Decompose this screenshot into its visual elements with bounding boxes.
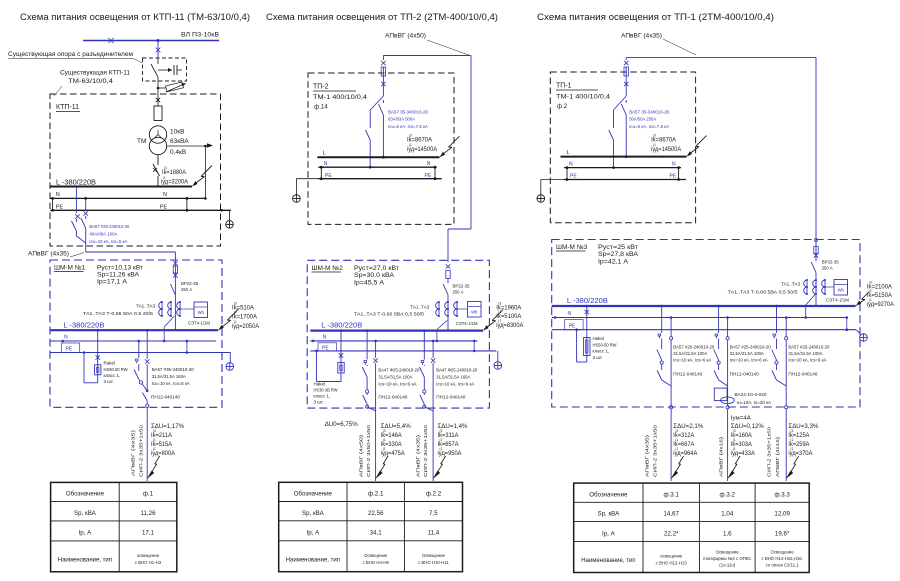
svg-text:Icu=6 кА, Ics=7,5 кА: Icu=6 кА, Ics=7,5 кА — [388, 124, 428, 129]
svg-text:класс 1,: класс 1, — [104, 373, 121, 378]
svg-text:ф.2: ф.2 — [557, 103, 568, 110]
svg-text:СЭТ4-1/1М: СЭТ4-1/1М — [188, 321, 210, 326]
svg-text:АПвВГ (4х35): АПвВГ (4х35) — [416, 434, 421, 477]
svg-text:ВА57 #25-240010-20: ВА57 #25-240010-20 — [730, 344, 771, 349]
svg-text:(3: (3 — [383, 429, 386, 433]
svg-text:АПвВГ (4х35): АПвВГ (4х35) — [28, 252, 69, 258]
svg-text:1,04: 1,04 — [721, 511, 734, 518]
svg-text:L -380/220В: L -380/220В — [63, 322, 104, 329]
svg-text:ΣΔU=1,17%: ΣΔU=1,17% — [151, 424, 185, 430]
svg-text:(3: (3 — [869, 281, 872, 285]
svg-text:31,5А/31,5А 100А: 31,5А/31,5А 100А — [730, 351, 764, 356]
svg-text:(3: (3 — [733, 429, 736, 433]
svg-text:ТМ: ТМ — [137, 138, 146, 145]
svg-text:iуд=433А: iуд=433А — [731, 451, 755, 457]
svg-text:(1: (1 — [153, 447, 156, 451]
svg-text:АПвВГ (4х35): АПвВГ (4х35) — [131, 429, 136, 476]
svg-text:КТП-11: КТП-11 — [56, 104, 79, 111]
svg-text:Наименование, тип: Наименование, тип — [58, 557, 112, 563]
svg-text:N: N — [56, 192, 60, 198]
svg-text:Обозначение: Обозначение — [589, 491, 628, 498]
svg-text:HS50-50 RW: HS50-50 RW — [593, 342, 618, 347]
svg-text:iуд=3200А: iуд=3200А — [161, 180, 188, 186]
svg-text:ВР22-35: ВР22-35 — [181, 281, 198, 286]
svg-text:(1: (1 — [163, 176, 166, 180]
svg-text:PE: PE — [670, 174, 677, 180]
svg-text:с ВНО Н14-Н15,Н16,: с ВНО Н14-Н15,Н16, — [761, 556, 802, 561]
svg-text:(3: (3 — [675, 429, 678, 433]
svg-text:ВА57 #25-240010-20: ВА57 #25-240010-20 — [788, 344, 829, 349]
svg-text:(1: (1 — [733, 438, 736, 442]
svg-text:(3: (3 — [653, 134, 656, 138]
svg-text:50А/50А 250А: 50А/50А 250А — [629, 117, 656, 122]
svg-text:N: N — [323, 335, 327, 341]
svg-text:ТА1..ТА3: ТА1..ТА3 — [410, 304, 429, 309]
svg-text:с ВНО Н10-Н11: с ВНО Н10-Н11 — [418, 560, 449, 565]
svg-text:ВА57 #25-240010-20: ВА57 #25-240010-20 — [673, 344, 714, 349]
svg-text:ШМ-М №1: ШМ-М №1 — [54, 265, 86, 272]
svg-text:iуд=14500А: iуд=14500А — [651, 147, 681, 153]
svg-text:(1: (1 — [790, 438, 793, 442]
svg-text:3 шт.: 3 шт. — [314, 400, 324, 405]
svg-text:63А/63А 500А: 63А/63А 500А — [388, 117, 415, 122]
svg-text:N: N — [427, 161, 431, 167]
svg-text:(1: (1 — [869, 298, 872, 302]
svg-text:Sp, кВА: Sp, кВА — [74, 510, 97, 517]
svg-text:ТА1..ТА3 Т-0,66 5ВА 0,5 50/5: ТА1..ТА3 Т-0,66 5ВА 0,5 50/5 — [354, 312, 425, 317]
svg-text:iуд=950А: iуд=950А — [438, 451, 462, 457]
svg-text:Wh: Wh — [471, 310, 478, 315]
svg-text:ВА47 Ф25-240010-20: ВА47 Ф25-240010-20 — [436, 368, 477, 373]
svg-text:с ВНО Н1-Н3: с ВНО Н1-Н3 — [135, 560, 162, 565]
svg-text:ТМ-1 400/10/0,4: ТМ-1 400/10/0,4 — [313, 94, 368, 101]
svg-text:iуд=14500А: iуд=14500А — [407, 147, 437, 153]
svg-text:ф.1: ф.1 — [143, 491, 154, 498]
svg-text:Wh: Wh — [838, 288, 845, 293]
svg-text:СИП-2 3х35+1х50: СИП-2 3х35+1х50 — [767, 426, 772, 477]
svg-text:34,1: 34,1 — [370, 530, 383, 537]
svg-text:11,26: 11,26 — [140, 510, 156, 517]
svg-text:АПвВГ (4х35): АПвВГ (4х35) — [621, 34, 662, 40]
svg-text:250 А: 250 А — [822, 266, 833, 271]
svg-text:ТА1..ТА3 Т-0,66 5ВА 0,5 50/5: ТА1..ТА3 Т-0,66 5ВА 0,5 50/5 — [728, 290, 799, 295]
svg-text:(3: (3 — [234, 302, 237, 306]
svg-text:Схема питания освещения от ТП-: Схема питания освещения от ТП-2 (2ТМ-400… — [266, 12, 498, 22]
svg-text:ВА57 #25-240010-20: ВА57 #25-240010-20 — [89, 224, 129, 229]
svg-text:ПН12-040140: ПН12-040140 — [436, 395, 466, 400]
svg-text:(3: (3 — [409, 134, 412, 138]
svg-text:10кВ: 10кВ — [170, 129, 184, 136]
svg-text:(3: (3 — [164, 166, 167, 170]
svg-text:ВА22-10-4-020: ВА22-10-4-020 — [735, 392, 768, 397]
svg-text:31,5А/31,5А 100А: 31,5А/31,5А 100А — [673, 351, 707, 356]
svg-text:HS30-3В RW: HS30-3В RW — [314, 388, 339, 393]
svg-text:Освещение: Освещение — [716, 550, 740, 555]
svg-text:ТА1..ТА3: ТА1..ТА3 — [781, 282, 800, 287]
svg-text:PE: PE — [569, 324, 576, 330]
svg-text:iуд=2050А: iуд=2050А — [232, 324, 259, 330]
svg-text:(1: (1 — [675, 438, 678, 442]
svg-text:PE: PE — [56, 204, 64, 210]
svg-text:ф.3.2: ф.3.2 — [720, 491, 736, 498]
svg-text:ТП-2: ТП-2 — [313, 84, 329, 91]
svg-text:класс 1,: класс 1, — [314, 394, 331, 399]
svg-text:Hakel: Hakel — [314, 382, 326, 387]
svg-text:22,56: 22,56 — [368, 510, 384, 517]
svg-text:Rakel: Rakel — [104, 361, 116, 366]
svg-text:Icu=10 кА, Ics=5 кА: Icu=10 кА, Ics=5 кА — [152, 381, 190, 386]
svg-text:HS50.50 RW: HS50.50 RW — [104, 367, 129, 372]
svg-text:Icu=10 кА, Ics=6 кА: Icu=10 кА, Ics=6 кА — [378, 381, 416, 386]
svg-text:класс 1,: класс 1, — [593, 349, 610, 354]
svg-text:L: L — [323, 150, 326, 156]
svg-text:Iр=42,1 А: Iр=42,1 А — [598, 258, 629, 265]
svg-text:(3: (3 — [498, 302, 501, 306]
svg-text:Руст=27,0 кВт: Руст=27,0 кВт — [354, 265, 399, 272]
svg-text:Icu=10 кА, Ics=6 кА: Icu=10 кА, Ics=6 кА — [788, 358, 826, 363]
svg-text:17,1: 17,1 — [142, 530, 155, 537]
svg-text:Icu=10 кА, Ics=6 кА: Icu=10 кА, Ics=6 кА — [436, 381, 474, 386]
svg-text:PE: PE — [570, 174, 577, 180]
svg-text:Icu=10 кА, Ics=6 кА: Icu=10 кА, Ics=6 кА — [730, 358, 768, 363]
svg-text:АПвВГ (4х35): АПвВГ (4х35) — [645, 434, 650, 477]
svg-text:(1: (1 — [790, 447, 793, 451]
svg-text:АПвВГ (4х50): АПвВГ (4х50) — [385, 34, 426, 40]
svg-text:СЭТ4-1/1М: СЭТ4-1/1М — [826, 298, 849, 303]
svg-text:СИП-2 3х35+1х50: СИП-2 3х35+1х50 — [139, 424, 144, 477]
svg-text:250 А: 250 А — [453, 290, 464, 295]
svg-text:СИП-2 3х35+1х50: СИП-2 3х35+1х50 — [423, 424, 428, 477]
svg-text:N: N — [569, 161, 573, 167]
svg-text:Наименование, тип: Наименование, тип — [286, 557, 340, 563]
svg-text:22,2*: 22,2* — [664, 530, 679, 537]
svg-text:ΣΔU=0,12%: ΣΔU=0,12% — [731, 424, 765, 430]
svg-text:Iр, А: Iр, А — [79, 530, 93, 537]
svg-text:31,5А/31,5А 100А: 31,5А/31,5А 100А — [378, 375, 412, 380]
svg-text:ф.2.1: ф.2.1 — [368, 491, 384, 498]
svg-text:iуд=370А: iуд=370А — [788, 451, 812, 457]
svg-text:(1: (1 — [498, 319, 501, 323]
svg-text:ТА1..ТА3: ТА1..ТА3 — [136, 304, 155, 309]
svg-text:ф.14: ф.14 — [314, 104, 328, 111]
svg-text:31,5А/31,5А 160А: 31,5А/31,5А 160А — [436, 375, 470, 380]
svg-text:7,5: 7,5 — [429, 510, 438, 517]
svg-text:PE: PE — [325, 173, 332, 179]
svg-text:11,4: 11,4 — [428, 530, 440, 537]
svg-text:Освещение: Освещение — [364, 553, 388, 558]
svg-text:Схема питания освещения от ТП-: Схема питания освещения от ТП-1 (2ТМ-400… — [537, 12, 774, 22]
svg-text:ПН12-040140: ПН12-040140 — [378, 395, 408, 400]
svg-text:ΔU0=6,75%: ΔU0=6,75% — [325, 421, 358, 428]
svg-text:платформы №4 с ОПКС: платформы №4 с ОПКС — [703, 556, 751, 561]
svg-text:Sр=30.0 кВА: Sр=30.0 кВА — [354, 272, 395, 279]
svg-text:АПвВГ (4х16): АПвВГ (4х16) — [775, 436, 780, 477]
svg-text:ВА57 #35-340010-20: ВА57 #35-340010-20 — [152, 367, 194, 372]
svg-text:12,09: 12,09 — [774, 511, 790, 518]
svg-text:ф.3.3: ф.3.3 — [774, 491, 790, 498]
svg-text:iуд=800А: iуд=800А — [151, 451, 175, 457]
svg-text:ТМ-63/10/0,4: ТМ-63/10/0,4 — [68, 78, 114, 85]
svg-text:L -380/220В: L -380/220В — [567, 298, 608, 305]
svg-text:Существующая опора с разъедини: Существующая опора с разъединителем — [8, 51, 133, 58]
svg-text:ВА57 35-340010-20: ВА57 35-340010-20 — [388, 110, 428, 115]
svg-text:АПвВГ (4х50): АПвВГ (4х50) — [359, 434, 364, 477]
svg-text:ф.3.1: ф.3.1 — [663, 491, 679, 498]
svg-text:(1: (1 — [383, 447, 386, 451]
svg-text:N: N — [568, 311, 572, 317]
svg-text:со опоек С2/11,1: со опоек С2/11,1 — [766, 563, 800, 568]
svg-text:PE: PE — [322, 345, 329, 351]
svg-text:iуд=9270А: iуд=9270А — [867, 302, 894, 308]
svg-text:с ВНО Н4-Н9: с ВНО Н4-Н9 — [363, 560, 390, 565]
svg-text:ТМ-1 400/10/0,4: ТМ-1 400/10/0,4 — [556, 94, 611, 101]
svg-text:(1: (1 — [440, 438, 443, 442]
svg-text:Icu=10 кА, Ics=5 кА: Icu=10 кА, Ics=5 кА — [89, 239, 127, 244]
svg-text:СИП-2 3х35+1х50: СИП-2 3х35+1х50 — [653, 424, 658, 477]
svg-text:Sp, кВА: Sp, кВА — [597, 511, 620, 518]
svg-text:с ВНО Н12-Н13: с ВНО Н12-Н13 — [656, 561, 688, 566]
svg-text:(1: (1 — [733, 447, 736, 451]
svg-text:Обозначение: Обозначение — [294, 491, 333, 498]
svg-text:ПН12-040140: ПН12-040140 — [788, 372, 818, 377]
svg-text:(1о-11о): (1о-11о) — [719, 563, 735, 568]
svg-text:Освещение: Освещение — [771, 550, 795, 555]
svg-text:(1: (1 — [675, 447, 678, 451]
svg-text:N: N — [163, 192, 167, 198]
svg-text:ВА47 Ф25-240010-20: ВА47 Ф25-240010-20 — [378, 368, 419, 373]
svg-text:(3: (3 — [153, 429, 156, 433]
svg-text:250 А: 250 А — [181, 287, 192, 292]
svg-text:ТП-1: ТП-1 — [556, 83, 572, 90]
svg-text:(1: (1 — [409, 143, 412, 147]
svg-text:19,6*: 19,6* — [775, 530, 790, 537]
svg-text:PE: PE — [160, 204, 168, 210]
svg-text:Руст=10,13 кВт: Руст=10,13 кВт — [97, 264, 143, 271]
svg-text:1,6: 1,6 — [723, 530, 732, 537]
svg-text:31,5А/31,5А 100А: 31,5А/31,5А 100А — [788, 351, 822, 356]
svg-text:Iр=45,5 А: Iр=45,5 А — [354, 279, 385, 286]
svg-text:ПН12-040140: ПН12-040140 — [673, 372, 703, 377]
svg-text:iуд=964А: iуд=964А — [673, 451, 697, 457]
svg-text:(1: (1 — [383, 438, 386, 442]
svg-text:АПвВГ (4х16): АПвВГ (4х16) — [719, 436, 724, 477]
svg-text:Wh: Wh — [198, 310, 205, 315]
svg-text:3 шт.: 3 шт. — [593, 355, 603, 360]
svg-text:ПН12-040140: ПН12-040140 — [730, 372, 760, 377]
svg-text:0,4кВ: 0,4кВ — [170, 149, 186, 156]
svg-text:Iн=10А, Iо=20 кА: Iн=10А, Iо=20 кА — [737, 400, 771, 405]
svg-text:ВР22-35: ВР22-35 — [453, 284, 470, 289]
svg-text:N: N — [672, 161, 676, 167]
svg-text:iуд=475А: iуд=475А — [381, 451, 405, 457]
svg-text:14,67: 14,67 — [663, 511, 679, 518]
svg-text:(1: (1 — [234, 320, 237, 324]
svg-text:N: N — [64, 335, 68, 341]
svg-text:(1: (1 — [653, 143, 656, 147]
svg-text:iуд=8300А: iуд=8300А — [496, 323, 523, 329]
svg-text:Sр=11,26 кВА: Sр=11,26 кВА — [97, 272, 140, 279]
svg-text:Hakel: Hakel — [593, 336, 605, 341]
svg-text:Sp, кВА: Sp, кВА — [302, 510, 325, 517]
svg-text:Iр, А: Iр, А — [306, 530, 320, 537]
svg-text:Обозначение: Обозначение — [66, 491, 105, 498]
svg-text:Icu=6 кА, Ics=7,5 кА: Icu=6 кА, Ics=7,5 кА — [629, 124, 669, 129]
svg-text:Освещение: Освещение — [422, 553, 446, 558]
svg-text:Существующая КТП-11: Существующая КТП-11 — [60, 70, 131, 77]
svg-text:3 шт.: 3 шт. — [104, 379, 114, 384]
svg-text:(3: (3 — [790, 429, 793, 433]
svg-text:31,5А/31,5А 160А: 31,5А/31,5А 160А — [152, 374, 186, 379]
svg-text:ВР32-35: ВР32-35 — [822, 260, 839, 265]
svg-text:Sр=27,8 кВА: Sр=27,8 кВА — [598, 251, 639, 258]
svg-text:Руст=25 кВт: Руст=25 кВт — [598, 244, 638, 251]
svg-text:ПН12-040140: ПН12-040140 — [151, 395, 181, 400]
svg-text:(1: (1 — [153, 438, 156, 442]
svg-text:L: L — [567, 150, 570, 156]
svg-text:Iум=4А: Iум=4А — [731, 416, 751, 422]
svg-text:(3: (3 — [440, 429, 443, 433]
svg-text:освещение: освещение — [660, 554, 683, 559]
svg-text:СИП-2 3х50+1х50: СИП-2 3х50+1х50 — [366, 424, 371, 477]
svg-text:PE: PE — [425, 173, 432, 179]
svg-text:ШМ-М №2: ШМ-М №2 — [312, 265, 344, 272]
svg-text:N: N — [324, 161, 328, 167]
svg-text:L -380/220В: L -380/220В — [56, 180, 96, 187]
svg-text:Схема питания освещения от КТП: Схема питания освещения от КТП-11 (ТМ-63… — [20, 12, 250, 22]
svg-text:ТА1..ТА3 Т-0,66 50А 0,5 20/5: ТА1..ТА3 Т-0,66 50А 0,5 20/5 — [83, 311, 154, 316]
svg-text:ВА57 35-340010-20: ВА57 35-340010-20 — [629, 110, 669, 115]
svg-text:(1: (1 — [440, 447, 443, 451]
svg-text:ф.2.2: ф.2.2 — [426, 491, 442, 498]
svg-text:40А/40А 160А: 40А/40А 160А — [89, 232, 117, 237]
svg-text:L -380/220В: L -380/220В — [321, 323, 362, 330]
svg-text:Iр=17,1 А: Iр=17,1 А — [97, 279, 128, 286]
svg-text:освещение: освещение — [137, 553, 160, 558]
svg-text:Icu=10 кА, Ics=6 кА: Icu=10 кА, Ics=6 кА — [673, 358, 711, 363]
svg-text:PE: PE — [66, 347, 73, 353]
svg-text:Наименование, тип: Наименование, тип — [581, 558, 635, 564]
svg-text:ШМ-М №3: ШМ-М №3 — [556, 244, 588, 251]
svg-text:СЭТ4-1/1М: СЭТ4-1/1М — [456, 321, 478, 326]
svg-text:(1: (1 — [869, 289, 872, 293]
svg-text:63кВА: 63кВА — [170, 138, 189, 145]
svg-text:ВЛ ПЗ-10кВ: ВЛ ПЗ-10кВ — [181, 32, 219, 39]
svg-text:Iр, А: Iр, А — [602, 530, 616, 537]
